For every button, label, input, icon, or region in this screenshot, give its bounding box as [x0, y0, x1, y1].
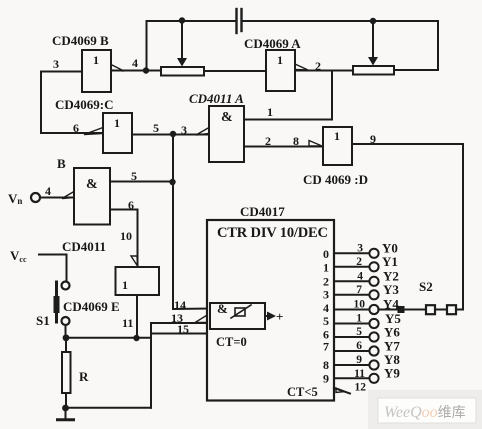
- wire pin11 output drop: [136, 295, 138, 338]
- svg-text:6: 6: [73, 121, 79, 135]
- node junction top-right: [370, 18, 376, 24]
- output flourish CD4069 A: [295, 64, 308, 70]
- wire between contacts: [435, 309, 447, 311]
- switch S1 bottom contact: [62, 317, 70, 325]
- svg-text:WeeQoo维库: WeeQoo维库: [384, 404, 466, 421]
- svg-text:11: 11: [354, 368, 365, 380]
- svg-text:5: 5: [323, 314, 329, 328]
- svg-text:S1: S1: [36, 313, 50, 328]
- svg-text:9: 9: [323, 372, 329, 386]
- wire RP1 to CD4069A input: [204, 70, 266, 72]
- svg-text:Y4: Y4: [383, 297, 399, 312]
- svg-text:1: 1: [323, 261, 329, 275]
- svg-text:3: 3: [357, 243, 363, 255]
- svg-text:&: &: [217, 301, 228, 316]
- svg-text:4: 4: [357, 271, 363, 283]
- svg-text:3: 3: [181, 123, 187, 137]
- svg-text:CD 4069 :D: CD 4069 :D: [303, 172, 368, 187]
- counter CD4017 text: [216, 225, 401, 399]
- switch S2 contact right: [447, 305, 456, 314]
- wire left drop from top rail: [146, 21, 148, 71]
- wire CD4069A output to RP2: [295, 70, 353, 72]
- wire pin15: [151, 333, 207, 335]
- wire CD4069C input pin6: [41, 132, 103, 134]
- svg-text:1: 1: [334, 129, 340, 143]
- svg-text:CD4069 B: CD4069 B: [52, 33, 109, 48]
- capacitor C1 plates: [237, 9, 242, 33]
- switch S1 top contact: [62, 282, 70, 290]
- watermark WeeQoo: [368, 390, 482, 429]
- inverter CD4069 A: [266, 50, 295, 91]
- nand gate CD4011 A: [209, 106, 244, 162]
- svg-text:10: 10: [120, 229, 132, 243]
- switch S2 contact left: [426, 305, 435, 314]
- wire pin9 output: [352, 143, 463, 145]
- inverter CD4069 B: [82, 50, 111, 92]
- wire top rail right of capacitor: [243, 20, 439, 22]
- svg-text:CD4011 A: CD4011 A: [189, 91, 244, 106]
- wire top rail left of capacitor: [147, 20, 236, 22]
- counter CD4017 box: [207, 220, 334, 401]
- svg-text:CTR DIV 10/DEC: CTR DIV 10/DEC: [217, 225, 328, 241]
- wire wiper drop left potentiometer: [181, 21, 183, 59]
- svg-text:R: R: [79, 369, 89, 384]
- output flourish CD4069 B: [111, 65, 124, 72]
- svg-text:11: 11: [122, 316, 133, 330]
- wire node to pin15 bus: [66, 337, 151, 339]
- wire pin13: [151, 322, 207, 324]
- svg-text:6: 6: [128, 198, 134, 212]
- svg-text:7: 7: [323, 340, 329, 354]
- wire right drop from top rail: [437, 21, 439, 70]
- svg-text:B: B: [57, 156, 66, 171]
- resistor R: [62, 352, 71, 393]
- wire R top: [65, 338, 67, 352]
- svg-text:9: 9: [356, 354, 362, 366]
- inverter CD4069 D: [323, 127, 352, 165]
- svg-text:0: 0: [323, 247, 329, 261]
- node junction Y4/S2: [398, 306, 405, 313]
- wire drop to CD4069E pin10: [137, 210, 139, 268]
- svg-text:3: 3: [53, 57, 59, 71]
- svg-text:5: 5: [356, 326, 362, 338]
- node junction gateB pin5: [169, 179, 175, 185]
- output pin numbers: [354, 243, 367, 394]
- svg-text:2: 2: [356, 256, 362, 268]
- svg-text:&: &: [221, 110, 233, 125]
- svg-text:2: 2: [323, 275, 329, 289]
- svg-text:1: 1: [356, 313, 362, 325]
- svg-text:7: 7: [356, 284, 362, 296]
- svg-text:CT<5: CT<5: [287, 385, 318, 399]
- svg-text:2: 2: [265, 134, 271, 148]
- svg-text:4: 4: [45, 184, 51, 198]
- output terminals Y0-Y9: [369, 249, 378, 383]
- svg-text:15: 15: [177, 322, 189, 336]
- svg-text:6: 6: [356, 340, 362, 352]
- inverter CD4069 C: [103, 113, 132, 153]
- wire right feedback vertical: [462, 144, 464, 310]
- output labels Y0-Y9: [382, 241, 401, 381]
- svg-text:9: 9: [370, 132, 376, 146]
- svg-text:CD4069 E: CD4069 E: [63, 299, 120, 314]
- svg-text:CD4069:C: CD4069:C: [55, 97, 114, 112]
- svg-text:5: 5: [153, 121, 159, 135]
- switch S1 lever: [55, 282, 58, 322]
- output wires Y0-Y9: [334, 253, 370, 378]
- terminal Vn input: [31, 193, 40, 202]
- wire pin6 output: [110, 209, 138, 211]
- svg-text:CD4017: CD4017: [240, 204, 285, 219]
- wire S1 to node: [65, 325, 67, 338]
- input flourish CD4011 A: [196, 128, 209, 136]
- svg-text:Y9: Y9: [384, 366, 400, 381]
- wire pin13/15 branch vertical: [150, 323, 152, 408]
- potentiometer RP2: [353, 66, 394, 75]
- pin12 stub: [334, 388, 350, 394]
- svg-text:2: 2: [315, 59, 321, 73]
- wire pin14: [173, 308, 210, 311]
- node junction S1/R: [63, 334, 70, 341]
- wire pin4 input: [40, 197, 74, 199]
- node junction pin3: [170, 131, 176, 137]
- svg-text:4: 4: [132, 56, 138, 70]
- svg-text:12: 12: [355, 382, 367, 394]
- svg-text:S2: S2: [419, 279, 433, 294]
- svg-text:&: &: [86, 177, 98, 192]
- dynamic edge symbol: [231, 305, 251, 318]
- svg-text:Y6: Y6: [384, 325, 400, 340]
- wire CD4069B output to RP1: [111, 70, 161, 72]
- wire pin5 to CD4011A pin3: [132, 134, 209, 136]
- svg-text:10: 10: [354, 299, 366, 311]
- input flourish CD4069 C: [84, 128, 103, 135]
- svg-text:Y3: Y3: [383, 282, 399, 297]
- node junction at pin4 wire: [143, 67, 149, 73]
- svg-text:1: 1: [277, 53, 283, 67]
- svg-text:1: 1: [267, 105, 273, 119]
- inverter CD4069 E: [116, 267, 160, 295]
- svg-text:5: 5: [131, 169, 137, 183]
- flourish pin13: [195, 315, 208, 323]
- node junction top-left: [179, 17, 185, 23]
- svg-text:+: +: [276, 309, 283, 324]
- wire R bottom: [65, 393, 67, 408]
- node junction pin11: [133, 335, 139, 341]
- input flourish CD4011 B: [62, 192, 74, 199]
- svg-text:1: 1: [93, 53, 99, 67]
- input flourish CD4069 E: [131, 256, 138, 266]
- svg-text:CD4011: CD4011: [62, 239, 106, 254]
- wire Vcc feed: [39, 255, 67, 282]
- wire S2 to feedback: [456, 309, 463, 311]
- ground: [65, 408, 67, 419]
- wire Y4 to S2: [378, 309, 426, 311]
- nand gate CD4011 B: [74, 168, 110, 225]
- wire pin5 output: [110, 181, 173, 183]
- svg-text:1: 1: [114, 116, 120, 130]
- wire feedback left vertical: [40, 72, 42, 134]
- potentiometer RP1: [161, 67, 204, 76]
- svg-text:Y1: Y1: [382, 254, 398, 269]
- node junction R/ground: [62, 405, 69, 412]
- svg-text:1: 1: [122, 278, 128, 292]
- wire wiper drop right potentiometer: [372, 21, 374, 58]
- svg-text:CD4069 A: CD4069 A: [244, 36, 301, 51]
- wire input pin3: [41, 71, 82, 73]
- wire mid vertical node bus: [172, 134, 174, 309]
- svg-text:8: 8: [293, 134, 299, 148]
- wire drop to CD4011A pin1: [331, 71, 333, 120]
- input flourish CD4069 D: [309, 141, 322, 147]
- wire ground rail: [66, 407, 151, 409]
- svg-text:14: 14: [174, 298, 186, 312]
- svg-text:3: 3: [323, 288, 329, 302]
- wire pin2 to CD4069D pin8: [244, 146, 323, 148]
- clock logic box: [210, 303, 265, 329]
- internal output digits 0-9: [323, 247, 329, 386]
- svg-text:CT=0: CT=0: [216, 335, 247, 349]
- svg-text:8: 8: [323, 358, 329, 372]
- svg-text:4: 4: [323, 301, 329, 315]
- clock arrow: [265, 315, 268, 317]
